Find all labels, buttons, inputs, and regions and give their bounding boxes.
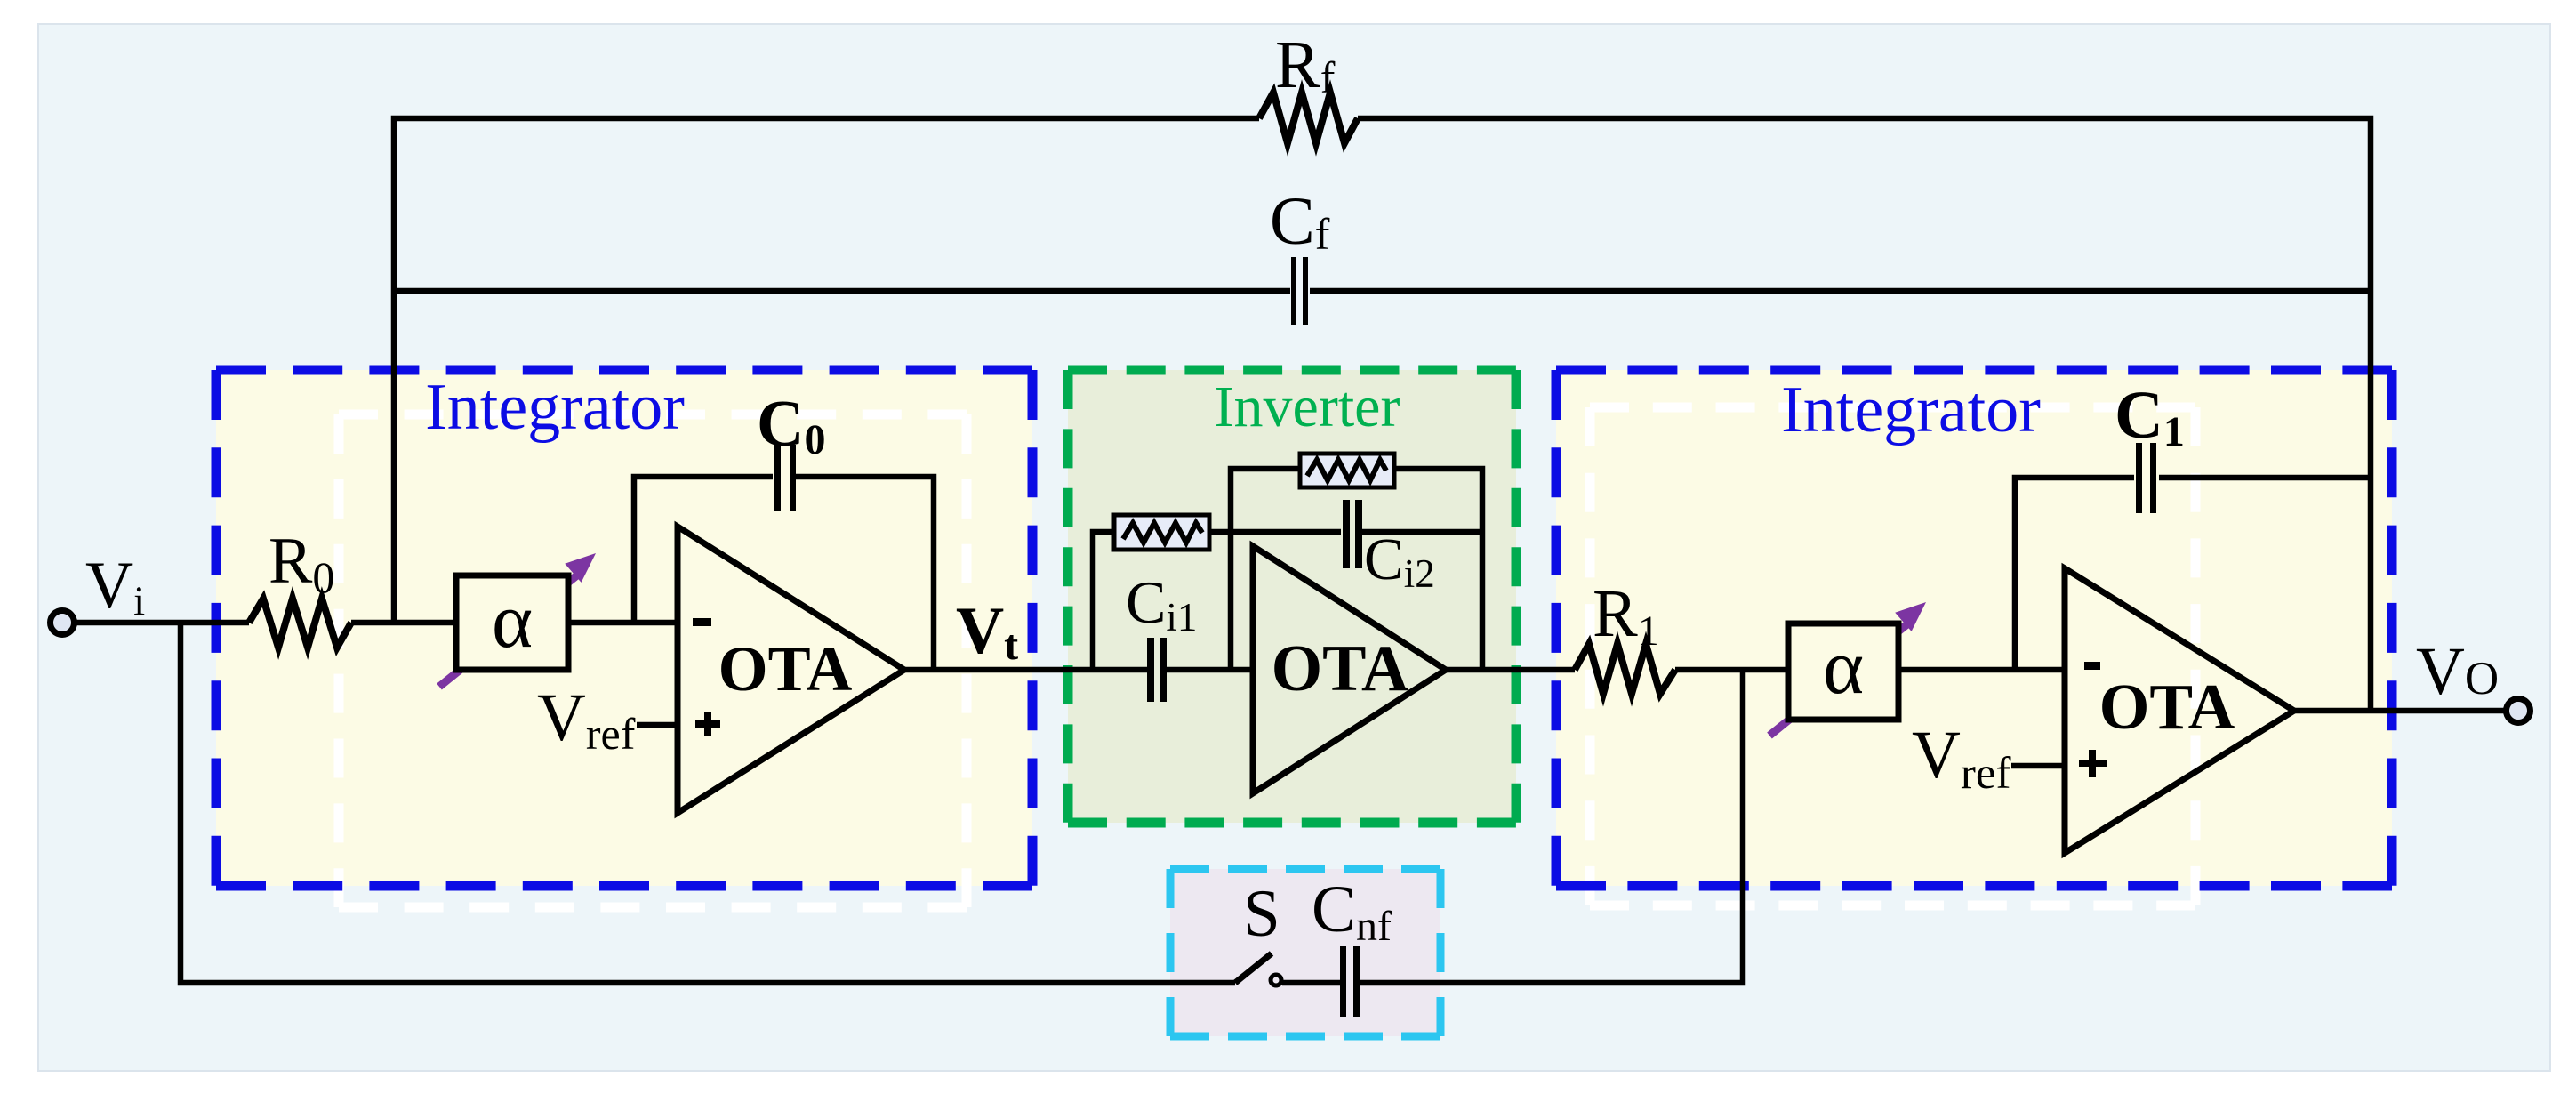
wire Rf right + feedback right vertical	[1358, 118, 2371, 711]
plus OTA3	[2079, 750, 2107, 777]
arrow alpha2 (behind box)	[1769, 602, 1926, 736]
wire Vi input	[75, 620, 249, 626]
arrow alpha1 (behind box)	[439, 553, 596, 687]
terminal Vi	[51, 611, 75, 635]
wire R0 to alpha1	[351, 620, 456, 626]
inverter box green dashed border	[1068, 370, 1516, 823]
wire Ci2 rail right	[1362, 529, 1482, 535]
wire Cf right	[1310, 288, 2371, 294]
variable box alpha1	[456, 575, 568, 670]
switch box cyan dashed border	[1170, 869, 1440, 1036]
minus OTA1	[693, 618, 711, 626]
svg-text:Integrator: Integrator	[425, 371, 685, 444]
switch box lavender fill	[1170, 869, 1440, 1036]
wire C0 top right + right vertical	[795, 477, 934, 670]
switch S arm	[1235, 953, 1272, 983]
resistor box Ri2	[1300, 454, 1394, 487]
resistor Rf	[1259, 93, 1358, 143]
integrator box 2 blue dashed border	[1556, 370, 2392, 886]
wire alpha1 to OTA1	[568, 620, 678, 626]
switch S contact circle	[1271, 975, 1281, 985]
wire C1 left vertical + rail left	[2015, 478, 2134, 670]
svg-text:α: α	[1823, 624, 1864, 711]
wire Vo output	[2294, 708, 2506, 714]
wire top rail right + inverter right vertical	[1394, 469, 1482, 670]
integrator box 1 yellow fill	[216, 370, 1032, 886]
svg-text:OTA: OTA	[1272, 632, 1409, 705]
wire Vref2 stub	[2011, 763, 2065, 769]
capacitor Ci2	[1343, 500, 1362, 568]
terminal Vo	[2507, 699, 2531, 723]
integrator box 1 blue dashed border	[216, 370, 1032, 886]
op-amp OTA2 triangle	[1253, 546, 1446, 793]
inverter box green fill	[1068, 370, 1516, 823]
svg-text:S: S	[1243, 877, 1280, 951]
capacitor Cnf	[1340, 946, 1360, 1017]
wire Ri1 to center vertical	[1209, 529, 1231, 535]
wire C1 rail right	[2159, 475, 2371, 481]
integrator box 2 yellow fill	[1556, 370, 2392, 886]
white dashed box 2	[1590, 407, 2195, 905]
wire Vref1 stub	[637, 722, 678, 728]
wire Ci1 to OTA2	[1167, 667, 1253, 673]
wire OTA2 output	[1446, 667, 1575, 673]
white dashed box 1	[339, 414, 967, 907]
capacitor C0	[774, 445, 796, 511]
wire input drop vertical + bottom left	[181, 623, 1235, 983]
resistor R1	[1575, 644, 1675, 694]
wire inverter center vertical + top rail left	[1231, 469, 1300, 670]
wire Rf left + feedback left vertical	[394, 118, 1259, 625]
resistor R0	[249, 599, 351, 648]
capacitor C1	[2136, 443, 2156, 513]
op-amp OTA3 triangle	[2065, 568, 2294, 853]
op-amp OTA1 triangle	[678, 527, 904, 813]
svg-text:Inverter: Inverter	[1215, 374, 1400, 439]
capacitor Ci1	[1147, 638, 1167, 702]
wire alpha2 to OTA3	[1898, 667, 2065, 673]
wire inverter input junction vertical + to Ri1 box	[1093, 532, 1114, 670]
plus OTA1	[695, 712, 720, 736]
minus OTA3	[2084, 662, 2100, 670]
svg-text:OTA: OTA	[2099, 671, 2235, 743]
wire Cf left	[394, 288, 1290, 294]
svg-text:Integrator: Integrator	[1781, 374, 2041, 446]
wire switch to Cnf	[1282, 980, 1340, 986]
wire Vt output	[904, 667, 1147, 673]
wire R1 to alpha2	[1675, 667, 1788, 673]
capacitor Cf	[1291, 257, 1308, 325]
wire C0 left vertical + top left	[634, 477, 773, 625]
wire bottom right + right drop vertical	[1360, 670, 1743, 983]
variable box alpha2	[1788, 623, 1898, 720]
svg-text:α: α	[492, 578, 533, 664]
wire Ci2 rail left	[1231, 529, 1341, 535]
svg-text:OTA: OTA	[718, 633, 853, 704]
resistor box Ri1	[1114, 515, 1209, 550]
